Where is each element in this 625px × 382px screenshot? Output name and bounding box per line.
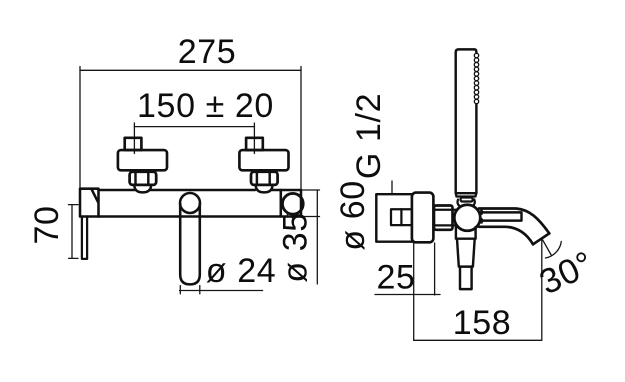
valve left: stem [125, 138, 142, 150]
dim 70 text (rotated) [28, 205, 66, 244]
svg-text:150 ± 20: 150 ± 20 [137, 87, 274, 125]
svg-text:30°: 30° [534, 244, 600, 302]
tail section 1 [456, 227, 476, 239]
svg-text:G 1/2: G 1/2 [350, 93, 388, 179]
valve right: stem [246, 138, 263, 150]
valve left: handle [118, 150, 167, 170]
hand shower handle [456, 49, 477, 193]
dim ø24 [180, 286, 263, 294]
svg-text:275: 275 [178, 33, 237, 71]
30 degree ray [542, 239, 552, 256]
in-wall square box [376, 194, 413, 242]
dim 150±20 line [134, 123, 254, 154]
svg-text:25: 25 [376, 259, 415, 297]
G 1/2 leader [391, 181, 393, 194]
G 1/2 text (rotated) [350, 93, 388, 179]
valve right: handle [239, 150, 288, 170]
holder band [456, 193, 477, 196]
hose stub [460, 267, 472, 290]
ø 60 text (rotated) [334, 180, 372, 250]
dim ø35 text (rotated) [277, 212, 315, 282]
tail section 2 taper [457, 239, 475, 267]
valve right: nut [251, 172, 278, 185]
30 degree arc [545, 242, 561, 259]
svg-text:158: 158 [453, 304, 512, 342]
dim 70 line [69, 205, 79, 259]
connector nut to ball [453, 210, 457, 226]
diverter knob circle [180, 193, 200, 213]
lever mount block [80, 189, 99, 217]
hex nut side view [434, 206, 453, 230]
dim 25 [375, 242, 440, 340]
svg-text:70: 70 [28, 205, 66, 244]
ball body circle [454, 205, 480, 231]
svg-text:ø 60: ø 60 [334, 180, 372, 250]
knurl ticks under circle [288, 215, 297, 218]
nozzle bumps [474, 53, 478, 103]
center cylinder [180, 204, 200, 285]
dim 158 [414, 240, 542, 341]
holder hooks [458, 200, 475, 207]
spout [479, 209, 549, 245]
30 degree text (rotated) [534, 244, 600, 302]
valve right: dome collar [256, 185, 273, 193]
dim 275 line [80, 67, 301, 191]
body bar front view [99, 190, 302, 217]
wall flange ø60 [412, 193, 434, 243]
shower holder circle (ø35) [282, 193, 303, 214]
valve left: dome collar [134, 185, 151, 193]
svg-text:ø 24: ø 24 [206, 252, 276, 290]
lever handle bar [82, 217, 87, 259]
dim ø35 lines [301, 190, 320, 284]
holder rim [461, 198, 473, 202]
valve left: nut [130, 172, 157, 185]
spout inner slot [481, 211, 522, 222]
svg-text:ø 35: ø 35 [277, 212, 315, 282]
G1/2 nipple [391, 209, 412, 225]
